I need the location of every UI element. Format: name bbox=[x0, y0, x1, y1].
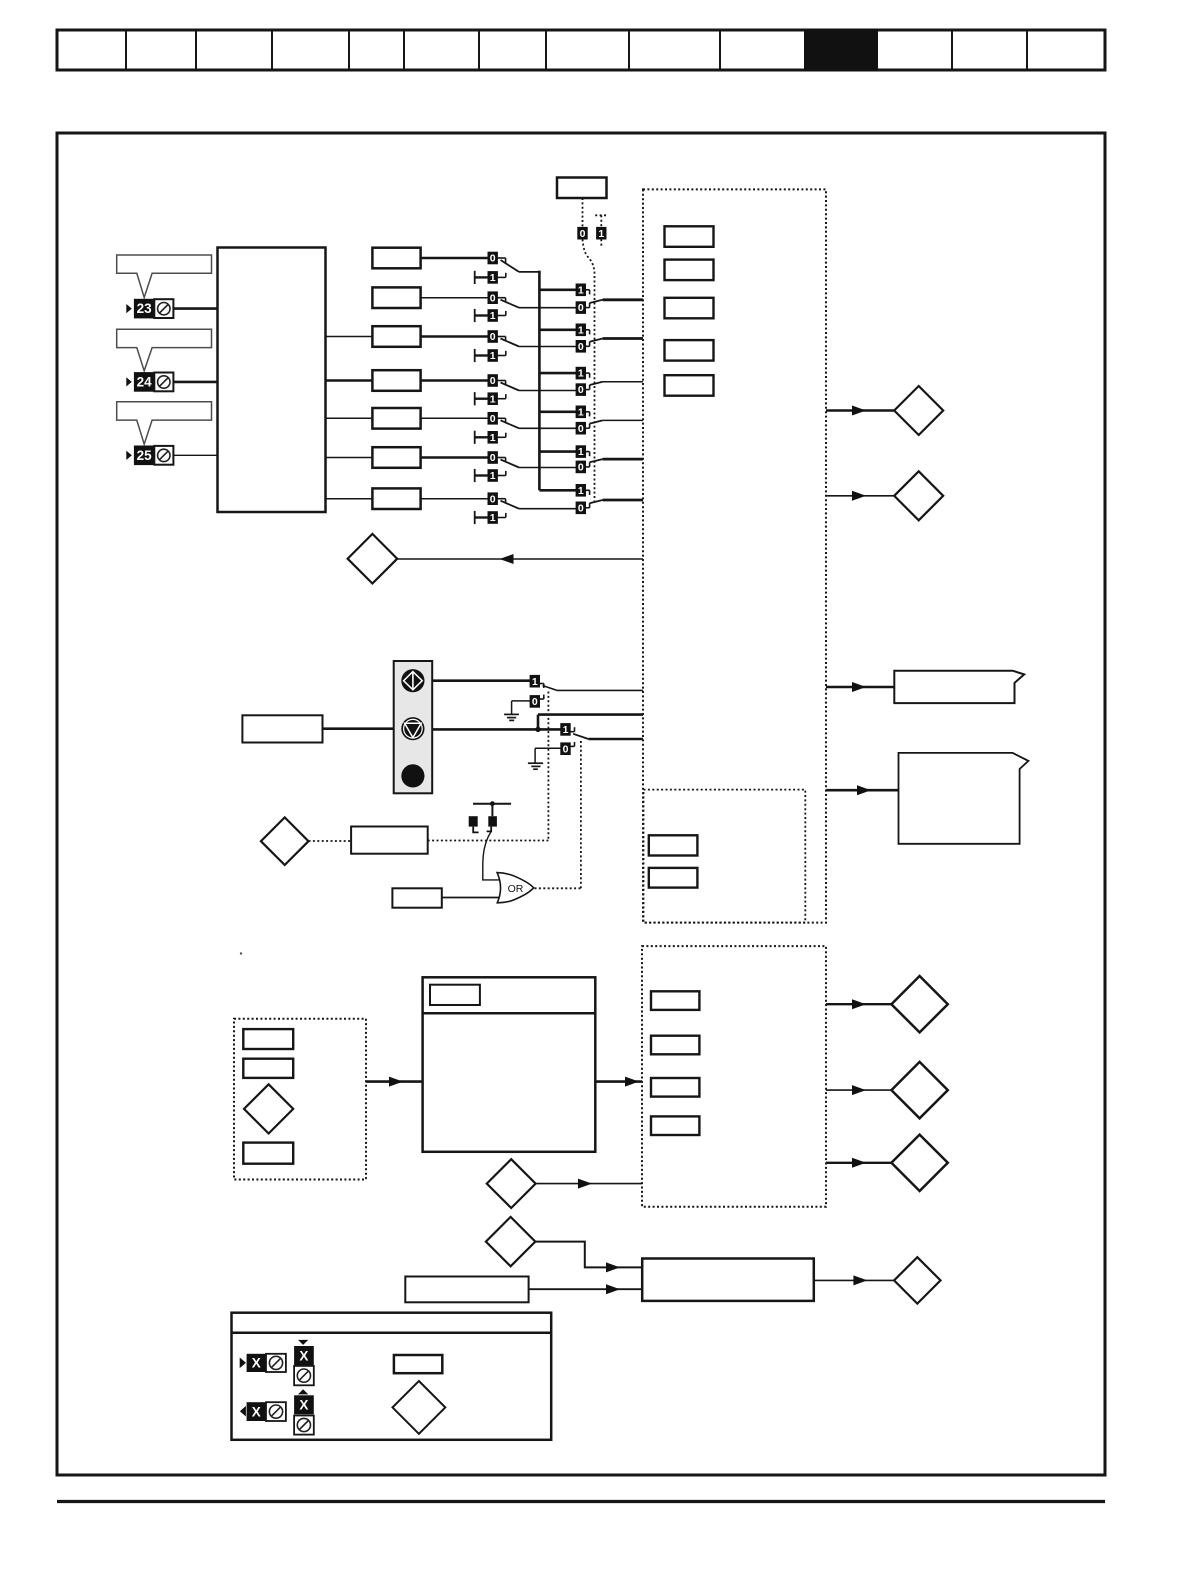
invert switch blade row 6 bbox=[501, 460, 520, 468]
wire sequencer diamond to control word box bbox=[536, 1183, 642, 1185]
invert switch "0" input row 6 bbox=[488, 452, 506, 464]
svg-text:0: 0 bbox=[490, 413, 496, 425]
mode parameter box 1 bbox=[243, 1029, 293, 1049]
wire trip block to trip diamond bbox=[814, 1279, 894, 1281]
OR gate bbox=[497, 873, 533, 903]
dash-dot OR output horizontal bbox=[535, 887, 581, 889]
destination parameter box 2 bbox=[665, 260, 714, 281]
wire row 1 output to bus bbox=[519, 271, 539, 273]
bus stub to routing switch "1" input row 3 bbox=[539, 328, 576, 331]
wire row 7 output to routing switch bbox=[519, 508, 576, 510]
wire routing switch output row 2 to destination block bbox=[603, 298, 643, 301]
svg-text:1: 1 bbox=[490, 470, 496, 482]
invert switch "1" input row 6 bbox=[475, 469, 506, 482]
invert switch blade row 1 bbox=[501, 260, 520, 272]
wire sequencer to control word box bbox=[595, 1080, 642, 1083]
terminal 23 input arrow bbox=[126, 304, 132, 313]
trip parameter rect bbox=[405, 1277, 528, 1303]
wire input-state block to indicator box row 5 bbox=[326, 417, 373, 419]
control word parameter box 1 bbox=[651, 991, 699, 1010]
ground symbol for run switch bbox=[504, 701, 530, 721]
bus stub to routing switch "1" input row 2 bbox=[539, 288, 576, 291]
routing switch "0" input row 3 bbox=[576, 341, 590, 353]
wire routing switch output row 6 to destination block bbox=[603, 458, 643, 461]
bus stub to routing switch "1" input row 6 bbox=[539, 450, 576, 453]
invert switch "1" input row 5 bbox=[475, 431, 506, 444]
invert switch "1" input row 4 bbox=[475, 392, 506, 405]
wire to banner flag bbox=[826, 686, 895, 688]
svg-text:0: 0 bbox=[490, 331, 496, 343]
source parameter box 2 bbox=[649, 868, 698, 888]
svg-text:0: 0 bbox=[578, 502, 584, 514]
bus stub to routing switch "1" input row 4 bbox=[539, 372, 576, 375]
svg-text:0: 0 bbox=[578, 462, 584, 474]
invert switch "0" input row 5 bbox=[488, 413, 506, 425]
logic select "1" option bbox=[597, 227, 606, 239]
stop switch "0" input bbox=[561, 742, 575, 755]
svg-text:0: 0 bbox=[563, 743, 569, 755]
wire routing switch output row 4 to destination block bbox=[603, 381, 643, 383]
routing switch "1" input row 5 bbox=[576, 406, 590, 418]
banner flag (folded corner) bbox=[894, 671, 1024, 703]
terminal 23 no-function symbol bbox=[154, 299, 173, 318]
run switch blade bbox=[543, 686, 558, 691]
svg-text:X: X bbox=[252, 1356, 261, 1371]
control source diamond bbox=[261, 817, 309, 865]
riser from junction bbox=[537, 715, 540, 731]
svg-text:OR: OR bbox=[508, 883, 524, 895]
svg-text:0: 0 bbox=[490, 493, 496, 505]
wire routing switch output row 5 to destination block bbox=[603, 419, 643, 421]
routing switch "1" input row 7 bbox=[576, 485, 590, 497]
footer rule bbox=[57, 1500, 1105, 1503]
wire indicator box to invert switch row 6 bbox=[421, 456, 488, 458]
wire run switch output to destination block bbox=[557, 689, 643, 691]
invert switch blade row 7 bbox=[501, 501, 520, 509]
routing switch "0" input row 2 bbox=[576, 302, 590, 314]
svg-text:1: 1 bbox=[578, 485, 584, 497]
control word dotted box bbox=[642, 946, 826, 1207]
svg-text:23: 23 bbox=[137, 301, 153, 316]
sequencer title parameter box bbox=[430, 985, 480, 1005]
legend key box bbox=[232, 1313, 552, 1440]
svg-text:25: 25 bbox=[137, 448, 153, 463]
routing switch "0" input row 4 bbox=[576, 384, 590, 396]
svg-text:X: X bbox=[252, 1404, 261, 1419]
wire to output diamond 1 bbox=[826, 409, 895, 412]
terminal 25 input arrow bbox=[126, 451, 132, 460]
status diamond 1 bbox=[891, 976, 947, 1032]
svg-text:X: X bbox=[299, 1348, 308, 1363]
wire routing switch output row 3 to destination block bbox=[603, 337, 643, 340]
svg-text:0: 0 bbox=[578, 423, 584, 435]
svg-text:0: 0 bbox=[490, 253, 496, 265]
wire row 5 output to routing switch bbox=[519, 427, 576, 429]
destination parameter box 3 bbox=[665, 298, 714, 319]
source parameter box 1 bbox=[649, 835, 698, 855]
svg-text:0: 0 bbox=[490, 292, 496, 304]
junction dot bbox=[535, 727, 540, 732]
output diamond 1 bbox=[894, 386, 943, 435]
wire input-state block to indicator box row 4 bbox=[326, 379, 373, 382]
status diamond 3 bbox=[891, 1135, 947, 1191]
input state indicator box row 2 bbox=[372, 287, 420, 308]
control parameter box bbox=[351, 827, 428, 854]
callout balloon for terminal 25 bbox=[117, 402, 212, 444]
logic select parameter box bbox=[557, 178, 607, 199]
input state indicator box row 4 bbox=[372, 370, 420, 391]
invert switch "0" input row 2 bbox=[488, 292, 506, 304]
routing switch blade row 3 bbox=[590, 339, 603, 342]
dotted wire control box to enable control line bbox=[428, 840, 549, 842]
dotted control line from logic select down the switch columns bbox=[583, 239, 595, 502]
OR input parameter box bbox=[392, 888, 441, 907]
svg-text:1: 1 bbox=[578, 406, 584, 418]
invert switch blade row 4 bbox=[501, 383, 520, 391]
routing switch blade row 2 bbox=[590, 300, 603, 303]
wire to status diamond 1 bbox=[826, 1003, 892, 1005]
wire row 2 output to routing switch bbox=[519, 307, 576, 309]
legend diamond sample bbox=[393, 1381, 446, 1434]
header tab bar bbox=[57, 30, 1105, 70]
svg-text:0: 0 bbox=[532, 696, 538, 708]
control word parameter box 4 bbox=[651, 1116, 699, 1135]
wire mode box to sequencer bbox=[366, 1080, 423, 1083]
wire row 3 output to routing switch bbox=[519, 346, 576, 348]
wire destination box to readout diamond (leftward) bbox=[397, 558, 643, 560]
svg-text:1: 1 bbox=[490, 310, 496, 322]
callout balloon for terminal 24 bbox=[117, 329, 212, 371]
svg-text:1: 1 bbox=[490, 432, 496, 444]
terminal 24 input arrow bbox=[126, 377, 132, 386]
stray mark bbox=[240, 952, 242, 954]
routing switch "0" input row 7 bbox=[576, 502, 590, 514]
bus stub to routing switch "1" input row 5 bbox=[539, 410, 576, 413]
control word parameter box 3 bbox=[651, 1078, 699, 1097]
wire terminal 24 to input-state block bbox=[173, 381, 218, 384]
digital input state block bbox=[218, 248, 326, 513]
wire to status diamond 3 bbox=[826, 1162, 892, 1164]
terminal 25 no-function symbol bbox=[154, 446, 173, 465]
keypad panel bbox=[394, 661, 433, 793]
svg-text:0: 0 bbox=[490, 375, 496, 387]
terminal 24 number box bbox=[134, 372, 154, 392]
keypad stop key icon bbox=[401, 717, 424, 740]
trip source diamond bbox=[486, 1217, 535, 1266]
bus stub to routing switch "1" input row 7 bbox=[539, 489, 576, 492]
invert switch "0" input row 3 bbox=[488, 331, 506, 343]
wire indicator box to invert switch row 2 bbox=[421, 297, 488, 299]
ground symbol for stop switch bbox=[528, 748, 561, 769]
keypad third key icon bbox=[401, 764, 424, 787]
destination parameter box 1 bbox=[665, 226, 714, 247]
control word parameter box 2 bbox=[651, 1036, 699, 1055]
invert switch blade row 3 bbox=[501, 339, 520, 347]
source sub dotted box bbox=[644, 790, 806, 923]
stop switch blade bbox=[573, 734, 588, 739]
wire OR input box to OR gate bbox=[442, 897, 503, 899]
wire trip parameter to trip block bbox=[529, 1288, 643, 1290]
run switch "1" input bbox=[530, 675, 544, 688]
active tab (filled) bbox=[804, 29, 878, 72]
legend input terminal symbol bbox=[240, 1354, 286, 1372]
svg-text:1: 1 bbox=[563, 724, 569, 736]
invert switch "1" input row 2 bbox=[475, 309, 506, 322]
wire run key to run switch bbox=[432, 679, 530, 682]
wire to note flag bbox=[826, 789, 899, 792]
destination parameter box 4 bbox=[665, 340, 714, 361]
wire junction to destination block bbox=[538, 713, 643, 716]
sequencer title divider bbox=[423, 1012, 596, 1015]
run switch "0" input bbox=[530, 695, 544, 708]
wire keypad reference to keypad bbox=[323, 727, 394, 730]
mode parameter box 2 bbox=[243, 1059, 293, 1078]
legend parameter rect sample bbox=[394, 1355, 442, 1373]
svg-text:1: 1 bbox=[490, 272, 496, 284]
dash-dot control line from OR gate vertical bbox=[580, 741, 582, 888]
status diamond 2 bbox=[891, 1062, 947, 1118]
callout balloon for terminal 23 bbox=[117, 255, 212, 298]
dotted stub above "1" option bbox=[595, 214, 607, 216]
terminal 25 number box bbox=[134, 446, 154, 466]
wire indicator box to invert switch row 3 bbox=[421, 335, 488, 337]
logic select "0" option bbox=[578, 227, 587, 239]
wire input-state block to indicator box row 7 bbox=[326, 498, 373, 500]
note flag (folded corner) bbox=[899, 753, 1029, 844]
routing switch "0" input row 5 bbox=[576, 422, 590, 434]
invert switch "0" input row 4 bbox=[488, 375, 506, 387]
wire row 6 output to routing switch bbox=[519, 467, 576, 469]
routing switch blade row 7 bbox=[590, 500, 603, 503]
wire stop switch output to destination block bbox=[588, 738, 643, 741]
invert switch "1" input row 7 bbox=[475, 511, 506, 524]
dotted stub below "1" option bbox=[600, 239, 602, 247]
routing switch "1" input row 2 bbox=[576, 284, 590, 296]
sequencer input diamond bbox=[487, 1159, 536, 1208]
svg-text:1: 1 bbox=[578, 446, 584, 458]
diagram frame bbox=[57, 133, 1105, 1475]
legend header divider bbox=[232, 1331, 552, 1334]
invert switch blade row 2 bbox=[501, 300, 520, 308]
wire trip diamond to trip block bbox=[535, 1242, 642, 1268]
wire indicator box to invert switch row 4 bbox=[421, 379, 488, 381]
invert switch "1" input row 1 bbox=[475, 271, 506, 284]
enable interlock bus (vertical) bbox=[538, 271, 541, 491]
svg-text:1: 1 bbox=[490, 393, 496, 405]
destination parameter box 5 bbox=[665, 375, 714, 396]
wire stop key to routing (with junction) bbox=[432, 728, 561, 731]
terminal 23 number box bbox=[134, 299, 154, 319]
svg-text:0: 0 bbox=[580, 228, 586, 240]
wire routing switch output row 7 to destination block bbox=[603, 499, 643, 502]
input state indicator box row 6 bbox=[372, 447, 420, 468]
keypad reference box bbox=[242, 715, 322, 742]
routing switch blade row 5 bbox=[590, 420, 603, 423]
wire indicator box to invert switch row 7 bbox=[421, 498, 488, 500]
svg-text:0: 0 bbox=[578, 302, 584, 314]
routing switch "1" input row 3 bbox=[576, 324, 590, 336]
input state indicator box row 7 bbox=[372, 488, 420, 509]
output diamond 2 bbox=[894, 471, 943, 520]
input state indicator box row 3 bbox=[372, 326, 420, 347]
dotted wire diamond to control box bbox=[309, 840, 352, 842]
invert switch "0" input row 7 bbox=[488, 493, 506, 505]
wire terminal 23 to input-state block bbox=[173, 307, 218, 310]
invert switch blade row 5 bbox=[501, 420, 520, 428]
legend read-write pair (down arrow) bbox=[294, 1340, 314, 1385]
readout diamond (left) bbox=[348, 534, 398, 584]
svg-text:1: 1 bbox=[578, 284, 584, 296]
svg-text:0: 0 bbox=[578, 341, 584, 353]
stop switch "1" input bbox=[561, 724, 575, 736]
legend output terminal symbol bbox=[240, 1402, 286, 1421]
svg-text:1: 1 bbox=[598, 228, 604, 240]
mode parameter box 3 bbox=[243, 1143, 293, 1164]
wire contact to OR gate input bbox=[483, 832, 500, 880]
svg-text:1: 1 bbox=[490, 512, 496, 524]
trip output diamond bbox=[894, 1257, 940, 1303]
wire input-state block to indicator box row 3 bbox=[326, 336, 373, 338]
routing switch "1" input row 6 bbox=[576, 446, 590, 458]
svg-text:1: 1 bbox=[578, 368, 584, 380]
sequencer block bbox=[423, 977, 596, 1152]
terminal 24 no-function symbol bbox=[154, 373, 173, 392]
routing switch blade row 6 bbox=[590, 459, 603, 462]
dotted wire logic select to "0" option bbox=[582, 198, 584, 227]
dash-dot control line (enable) vertical bbox=[547, 692, 549, 841]
svg-text:24: 24 bbox=[137, 375, 153, 390]
wire row 4 output to routing switch bbox=[519, 390, 576, 392]
destination parameters dotted box bbox=[643, 189, 826, 922]
svg-text:X: X bbox=[299, 1398, 308, 1413]
routing switch "0" input row 6 bbox=[576, 461, 590, 473]
input state indicator box row 5 bbox=[372, 408, 420, 429]
routing switch blade row 4 bbox=[590, 382, 603, 385]
wire terminal 25 to input-state block bbox=[173, 454, 218, 456]
input state indicator box row 1 bbox=[372, 248, 420, 269]
svg-text:1: 1 bbox=[578, 324, 584, 336]
svg-text:1: 1 bbox=[532, 676, 538, 688]
trip block bbox=[642, 1259, 814, 1301]
stop-key contact symbol bbox=[469, 801, 511, 832]
invert switch "1" input row 3 bbox=[475, 349, 506, 362]
wire to status diamond 2 bbox=[826, 1089, 892, 1091]
wire indicator box to invert switch row 5 bbox=[421, 417, 488, 419]
wire indicator box to invert switch row 1 bbox=[421, 257, 488, 259]
routing switch "1" input row 4 bbox=[576, 367, 590, 379]
invert switch "0" input row 1 bbox=[488, 252, 506, 264]
mode select dotted box bbox=[234, 1019, 366, 1180]
wire input-state block to indicator box row 6 bbox=[326, 457, 373, 459]
svg-text:0: 0 bbox=[578, 384, 584, 396]
legend read-only pair (up arrow) bbox=[294, 1389, 314, 1434]
wire to output diamond 2 bbox=[826, 495, 895, 497]
svg-text:1: 1 bbox=[490, 350, 496, 362]
svg-text:0: 0 bbox=[490, 452, 496, 464]
mode diamond bbox=[244, 1084, 293, 1133]
keypad run key icon bbox=[401, 669, 424, 692]
